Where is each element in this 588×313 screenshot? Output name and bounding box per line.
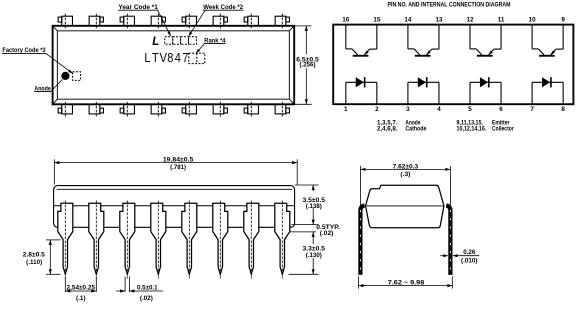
package top view inner outline (plateau) xyxy=(53,26,295,105)
svg-text:5: 5 xyxy=(468,106,472,113)
svg-text:2: 2 xyxy=(375,106,379,113)
pin 5 lead (top view, lower row) xyxy=(182,102,196,117)
svg-text:(.781): (.781) xyxy=(170,164,186,171)
svg-text:7.62±0.3: 7.62±0.3 xyxy=(393,163,419,170)
dimension 2.8±0.5 (.110) lead length xyxy=(23,240,61,274)
pin number 12 (top) xyxy=(466,17,474,24)
pin number 9 (top) xyxy=(561,17,565,24)
svg-text:7: 7 xyxy=(530,106,534,113)
phototransistor Q2 (pins 14 collector / 13 emitter) xyxy=(408,25,439,57)
LED D4 (pins 7 anode / 8 cathode) xyxy=(532,77,563,104)
svg-text:3: 3 xyxy=(406,106,410,113)
dimension 7.62 ~ 9.98 lead span xyxy=(359,276,453,288)
svg-text:8: 8 xyxy=(561,106,565,113)
svg-text:(.130): (.130) xyxy=(306,252,322,259)
svg-text:0.26: 0.26 xyxy=(463,249,476,256)
pin 2 lead (front view) xyxy=(89,201,104,279)
svg-text:6: 6 xyxy=(499,106,503,113)
label Factory Code *3 with leader xyxy=(2,47,73,73)
pin number 8 (bottom) xyxy=(561,106,565,113)
svg-text:1: 1 xyxy=(344,106,348,113)
pin number 5 (bottom) xyxy=(468,106,472,113)
svg-text:2,54±0.25: 2,54±0.25 xyxy=(67,284,96,291)
pin 1 lead (top view, lower row) xyxy=(58,102,72,117)
svg-text:(.3): (.3) xyxy=(400,171,410,178)
legend: anode/cathode pin assignment xyxy=(377,119,427,132)
svg-text:(.1): (.1) xyxy=(76,295,86,302)
svg-text:16: 16 xyxy=(342,17,350,24)
pin 8 lead (front view) xyxy=(275,201,290,279)
pin 5 lead (top view, upper row) xyxy=(182,14,196,29)
pin number 10 (top) xyxy=(529,17,537,24)
pin number 14 (top) xyxy=(404,17,412,24)
label Year Code *1 with leader xyxy=(118,4,171,36)
pin 5 lead (front view) xyxy=(182,201,197,279)
phototransistor Q1 (pins 16 collector / 15 emitter) xyxy=(346,25,377,57)
svg-text:(.138): (.138) xyxy=(306,203,322,210)
pin 6 lead (top view, lower row) xyxy=(213,102,227,117)
svg-text:10,12,14,16.: 10,12,14,16. xyxy=(457,125,487,132)
pin 7 lead (front view) xyxy=(244,201,259,279)
pin 7 lead (top view, upper row) xyxy=(244,14,258,29)
pin 3 lead (front view) xyxy=(120,201,135,279)
pin number 7 (bottom) xyxy=(530,106,534,113)
label Anode with leader xyxy=(34,79,62,92)
svg-text:PIN NO. AND INTERNAL CONNECTIO: PIN NO. AND INTERNAL CONNECTION DIAGRAM xyxy=(388,2,511,9)
title: PIN NO. AND INTERNAL CONNECTION DIAGRAM xyxy=(388,2,511,9)
svg-text:(.02): (.02) xyxy=(140,295,153,302)
pin number 3 (bottom) xyxy=(406,106,410,113)
svg-text:15: 15 xyxy=(373,17,381,24)
LED D3 (pins 5 anode / 6 cathode) xyxy=(470,77,501,104)
svg-text:(.256): (.256) xyxy=(300,62,316,69)
LED D2 (pins 3 anode / 4 cathode) xyxy=(408,77,439,104)
pin 1 lead (top view, upper row) xyxy=(58,14,72,29)
pin 8 lead (top view, lower row) xyxy=(275,102,289,117)
Liteon logo L xyxy=(152,36,159,48)
pin 1 lead (front view) xyxy=(58,201,73,279)
svg-text:14: 14 xyxy=(404,17,412,24)
label Week Code *2 with leader xyxy=(189,4,244,36)
pin number 15 (top) xyxy=(373,17,381,24)
pin 6 lead (front view) xyxy=(213,201,228,279)
phototransistor Q4 (pins 10 collector / 9 emitter) xyxy=(532,25,563,57)
svg-text:(.110): (.110) xyxy=(26,259,42,266)
dimension 3.5±0.5 / 0.5TYP / 3.3±0.5 stack (right side) xyxy=(289,185,341,274)
svg-text:11: 11 xyxy=(498,17,505,24)
svg-text:2,4,6,8.: 2,4,6,8. xyxy=(377,125,398,132)
pin 6 lead (top view, upper row) xyxy=(213,14,227,29)
pin number 1 (bottom) xyxy=(344,106,348,113)
legend: emitter/collector pin assignment xyxy=(457,119,515,132)
svg-text:13: 13 xyxy=(435,17,443,24)
pin number 6 (bottom) xyxy=(499,106,503,113)
package body front view outline xyxy=(54,186,295,228)
LED D1 (pins 1 anode / 2 cathode) xyxy=(346,77,377,104)
package body end view outline xyxy=(366,185,444,228)
phototransistor Q3 (pins 12 collector / 11 emitter) xyxy=(470,25,501,57)
svg-text:(.010): (.010) xyxy=(461,258,478,265)
dimension 19.84±0.5 (.781) package length xyxy=(54,157,297,185)
pin 2 lead (top view, lower row) xyxy=(89,102,103,117)
svg-text:9: 9 xyxy=(561,17,565,24)
pin 4 lead (front view) xyxy=(151,201,166,279)
pin 2 lead (top view, upper row) xyxy=(89,14,103,29)
svg-text:Cathode: Cathode xyxy=(405,125,426,132)
svg-text:4: 4 xyxy=(437,106,441,113)
pin 4 lead (top view, lower row) xyxy=(151,102,165,117)
pin 3 lead (top view, upper row) xyxy=(120,14,134,29)
pin number 13 (top) xyxy=(435,17,443,24)
dimension 7.62±0.3 (.3) lead row pitch xyxy=(360,163,450,205)
svg-text:Collector: Collector xyxy=(492,125,514,132)
year/week date code marking boxes xyxy=(165,37,197,44)
svg-text:19.84±0.5: 19.84±0.5 xyxy=(163,157,194,164)
package top view outer outline xyxy=(53,26,295,105)
svg-text:10: 10 xyxy=(529,17,537,24)
pin 1 anode index dot xyxy=(61,72,69,80)
pin 8 lead (top view, upper row) xyxy=(275,14,289,29)
left lead (end view) xyxy=(360,205,364,275)
pin number 4 (bottom) xyxy=(437,106,441,113)
svg-text:2.8±0.5: 2.8±0.5 xyxy=(23,252,46,259)
internal connection diagram box xyxy=(333,25,573,105)
svg-text:0.5±0.1: 0.5±0.1 xyxy=(137,284,158,291)
rank marking box xyxy=(189,53,205,63)
pin number 2 (bottom) xyxy=(375,106,379,113)
dimension 0.26 (.010) lead thickness xyxy=(440,249,479,265)
pin number 11 (top) xyxy=(498,17,505,24)
pin number 16 (top) xyxy=(342,17,350,24)
pin 3 lead (top view, lower row) xyxy=(120,102,134,117)
pin 4 lead (top view, upper row) xyxy=(151,14,165,29)
svg-text:L: L xyxy=(152,36,159,48)
svg-text:(.02): (.02) xyxy=(320,230,334,237)
dimension 0.5±0.1 (.02) lead width xyxy=(116,277,163,302)
pin 7 lead (top view, lower row) xyxy=(244,102,258,117)
svg-text:7.62 ~ 9.98: 7.62 ~ 9.98 xyxy=(388,279,425,286)
device marking LTV847 xyxy=(144,50,188,65)
svg-text:LTV847: LTV847 xyxy=(144,50,188,65)
factory code marking box xyxy=(73,72,81,81)
right lead (end view) xyxy=(446,205,450,275)
dimension 2,54±0.25 (.1) lead pitch xyxy=(65,277,96,302)
dimension 6.5±0.5 (.256) package width xyxy=(294,26,319,104)
label Rank *4 with leader xyxy=(196,37,226,53)
svg-text:12: 12 xyxy=(466,17,474,24)
